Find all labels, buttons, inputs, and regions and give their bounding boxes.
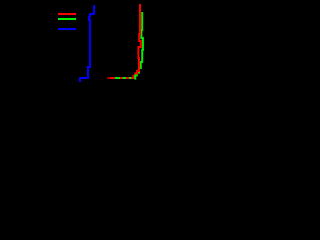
blue step curve [80, 5, 94, 82]
green dash over red tail 2 [123, 77, 127, 79]
legend red line sample [58, 13, 76, 15]
legend blue line sample [58, 28, 76, 30]
green step lower tip [134, 75, 136, 80]
legend green line sample [58, 18, 76, 20]
green step curve [115, 12, 143, 78]
red step curve [107, 4, 141, 78]
green dash over red tail 1 [115, 77, 120, 79]
red tail dark left tip [107, 77, 110, 79]
green dash over red tail 3 [129, 77, 132, 79]
background [0, 0, 155, 109]
